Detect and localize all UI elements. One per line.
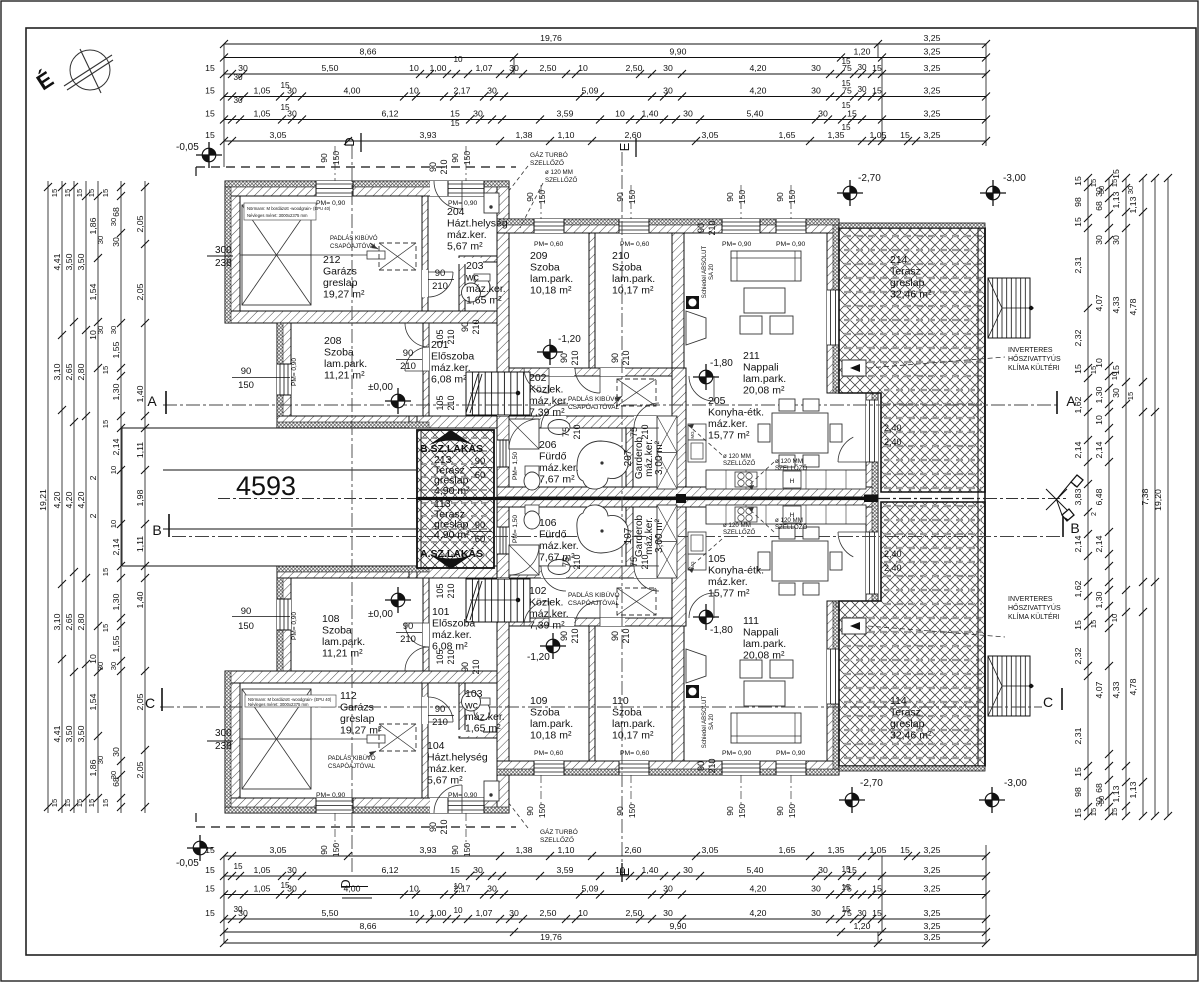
svg-text:Szoba: Szoba: [530, 707, 560, 719]
svg-text:10: 10: [615, 865, 625, 875]
svg-text:GÁZ TURBÓ: GÁZ TURBÓ: [540, 827, 578, 836]
svg-text:wc: wc: [465, 272, 479, 284]
svg-text:150: 150: [787, 190, 797, 204]
svg-text:3,25: 3,25: [924, 33, 941, 43]
svg-text:75: 75: [629, 427, 639, 437]
svg-text:2,31: 2,31: [1073, 727, 1083, 744]
svg-text:-1,20: -1,20: [527, 652, 550, 663]
svg-text:Szoba: Szoba: [612, 707, 642, 719]
svg-text:2: 2: [1091, 512, 1098, 516]
svg-text:15: 15: [900, 130, 910, 140]
wall mirror: left block right wall: [497, 622, 509, 813]
windows: [277, 181, 806, 813]
wall: wall between garage and room 208: [225, 311, 509, 323]
svg-text:3,10: 3,10: [52, 363, 62, 380]
svg-text:210: 210: [640, 554, 650, 569]
attic ladder dashed box garage upper: [379, 243, 416, 270]
svg-text:PM= 1,50: PM= 1,50: [512, 515, 519, 543]
cooktop: [735, 472, 757, 487]
wall: wc 203 left wall: [459, 256, 465, 311]
wall: room 208 / hall bottom wall: [277, 416, 684, 428]
party wall threshold block chimney: [676, 494, 686, 503]
svg-text:210: 210: [400, 361, 416, 372]
wall mirror: wc 203 left wall: [459, 683, 465, 738]
svg-text:ø 120 MM: ø 120 MM: [545, 169, 573, 176]
svg-text:5,40: 5,40: [747, 865, 764, 875]
svg-text:7,67 m²: 7,67 m²: [539, 474, 575, 486]
svg-text:15: 15: [841, 905, 851, 914]
svg-text:210: 210: [707, 758, 717, 773]
svg-text:98: 98: [1073, 197, 1083, 207]
svg-text:202: 202: [529, 372, 547, 384]
svg-text:1,65: 1,65: [779, 130, 796, 140]
svg-text:máz.ker.: máz.ker.: [708, 576, 748, 588]
party wall core line: [416, 497, 866, 500]
svg-text:75: 75: [629, 557, 639, 567]
svg-text:19,76: 19,76: [540, 932, 562, 942]
svg-text:108: 108: [322, 613, 340, 625]
svg-text:210: 210: [446, 395, 456, 410]
svg-text:PM= 1,50: PM= 1,50: [512, 452, 519, 480]
svg-text:3,00 m²: 3,00 m²: [654, 518, 665, 553]
svg-text:6,08 m²: 6,08 m²: [431, 374, 467, 386]
svg-text:208: 208: [324, 335, 342, 347]
wall mirror: party wall: [497, 497, 878, 507]
svg-text:Szoba: Szoba: [612, 262, 642, 274]
svg-text:1,30: 1,30: [1094, 386, 1104, 403]
svg-text:210: 210: [439, 819, 449, 834]
svg-text:150: 150: [537, 804, 547, 818]
svg-text:15: 15: [450, 109, 460, 119]
svg-text:MG: MG: [690, 561, 695, 569]
svg-text:3,10: 3,10: [52, 613, 62, 630]
garage door template upper: [242, 205, 311, 305]
wall mirror: bath 206 left wall: [497, 497, 509, 578]
svg-text:Fürdő: Fürdő: [539, 529, 567, 541]
svg-text:19,27 m²: 19,27 m²: [323, 289, 365, 301]
right dimension columns: [1073, 169, 1172, 820]
svg-text:3,25: 3,25: [924, 845, 941, 855]
wall mirror: wall between 206 and 207: [626, 497, 633, 566]
svg-text:15: 15: [87, 189, 96, 197]
svg-text:4,33: 4,33: [1111, 681, 1121, 698]
marker +0,00 upper: [385, 388, 411, 414]
svg-text:PM= 0,90: PM= 0,90: [448, 792, 478, 799]
svg-text:90: 90: [525, 192, 535, 202]
svg-text:3,50: 3,50: [64, 253, 74, 270]
svg-text:15: 15: [841, 79, 851, 88]
svg-text:4,20: 4,20: [750, 908, 767, 918]
svg-text:5,09: 5,09: [582, 884, 599, 894]
svg-text:PM= 0,90: PM= 0,90: [722, 241, 752, 248]
svg-text:greslap: greslap: [890, 718, 925, 730]
svg-text:Nappali: Nappali: [743, 362, 779, 374]
svg-text:150: 150: [331, 151, 341, 165]
svg-text:lam.park.: lam.park.: [743, 638, 786, 650]
building walls (upper unit + mirrored lower unit): [225, 181, 881, 813]
svg-text:PM= 0,90: PM= 0,90: [291, 612, 298, 640]
svg-text:lam.park.: lam.park.: [322, 636, 365, 648]
svg-text:3,25: 3,25: [924, 130, 941, 140]
svg-text:2,05: 2,05: [135, 215, 145, 232]
wall: room 208 left wall: [277, 323, 291, 416]
svg-text:90: 90: [525, 806, 535, 816]
svg-text:15: 15: [841, 883, 851, 892]
svg-text:1,40: 1,40: [642, 109, 659, 119]
svg-text:30: 30: [1111, 235, 1121, 245]
svg-text:4,90 m²: 4,90 m²: [434, 485, 470, 497]
svg-text:32,46 m²: 32,46 m²: [890, 289, 932, 301]
svg-text:30: 30: [663, 908, 673, 918]
svg-text:1,07: 1,07: [476, 63, 493, 73]
svg-text:INVERTERES: INVERTERES: [1008, 347, 1053, 354]
svg-text:15: 15: [101, 568, 110, 576]
svg-text:±0,00: ±0,00: [368, 609, 393, 620]
svg-text:2,40: 2,40: [884, 423, 902, 433]
wall mirror: kitchen right wall: [866, 497, 878, 601]
svg-text:15: 15: [1110, 808, 1119, 816]
svg-text:9,90: 9,90: [670, 47, 687, 57]
svg-text:2: 2: [88, 475, 98, 480]
indoor stair upper unit: [466, 372, 530, 415]
svg-text:10,17 m²: 10,17 m²: [612, 285, 654, 297]
svg-text:11,21 m²: 11,21 m²: [324, 370, 365, 382]
marker -0,05 bottom: [187, 835, 213, 861]
svg-text:3,05: 3,05: [702, 130, 719, 140]
svg-text:2,80: 2,80: [76, 363, 86, 380]
svg-text:2,40: 2,40: [884, 549, 902, 559]
svg-text:204: 204: [447, 206, 465, 218]
svg-text:SA 20: SA 20: [709, 713, 715, 730]
marker -1,80 upper: [693, 364, 719, 390]
wall: kitchen right wall: [866, 393, 878, 497]
svg-text:1,38: 1,38: [516, 130, 533, 140]
svg-text:4,07: 4,07: [1094, 681, 1104, 698]
section line A: [163, 404, 1060, 406]
svg-text:210: 210: [471, 319, 481, 334]
svg-text:PM= 0,90: PM= 0,90: [316, 792, 346, 799]
svg-text:210: 210: [432, 717, 448, 728]
svg-text:7,39 m²: 7,39 m²: [529, 407, 565, 419]
svg-text:150: 150: [462, 843, 472, 857]
property line top: [196, 166, 516, 168]
svg-text:3,83: 3,83: [1073, 488, 1083, 505]
dining table and chairs: [772, 413, 828, 453]
svg-text:PM= 0,90: PM= 0,90: [776, 241, 806, 248]
attic ladder dashed box garage lower: [379, 724, 416, 751]
svg-text:111: 111: [743, 615, 759, 627]
svg-text:3,59: 3,59: [557, 109, 574, 119]
svg-text:30: 30: [857, 909, 867, 918]
svg-text:30: 30: [96, 326, 105, 334]
wall mirror: kitchen step wall: [836, 601, 881, 612]
section line B: [172, 536, 1060, 538]
svg-text:68: 68: [1094, 783, 1104, 793]
wall mirror: living room right wall: [827, 601, 839, 761]
svg-text:5,67 m²: 5,67 m²: [427, 775, 463, 787]
svg-text:1,65: 1,65: [779, 845, 796, 855]
svg-text:PM= 0,60: PM= 0,60: [534, 241, 564, 248]
dimension row extension lines top: [223, 44, 225, 167]
wall: garage top wall: [225, 181, 509, 196]
svg-text:-0,05: -0,05: [176, 142, 199, 153]
svg-text:3,25: 3,25: [924, 86, 941, 96]
svg-text:Közlek.: Közlek.: [529, 384, 563, 396]
svg-text:1,98: 1,98: [135, 489, 145, 506]
svg-text:150: 150: [238, 621, 254, 632]
svg-text:30: 30: [473, 865, 483, 875]
svg-text:3,05: 3,05: [270, 845, 287, 855]
svg-text:Terasz: Terasz: [890, 707, 921, 719]
marker -2,70 bottom: [839, 787, 865, 813]
svg-text:150: 150: [737, 190, 747, 204]
svg-text:60: 60: [475, 534, 486, 545]
svg-text:3,25: 3,25: [924, 47, 941, 57]
svg-text:300: 300: [215, 728, 232, 739]
svg-text:15: 15: [63, 189, 72, 197]
svg-text:210: 210: [572, 424, 582, 439]
svg-text:15: 15: [1110, 179, 1119, 187]
wall: wall between 206 and 207: [626, 428, 633, 497]
svg-text:105: 105: [435, 649, 445, 664]
svg-text:1,54: 1,54: [88, 283, 98, 300]
svg-text:90: 90: [559, 631, 569, 641]
svg-text:Konyha-étk.: Konyha-étk.: [708, 565, 764, 577]
kitchen H box: [783, 471, 801, 488]
svg-text:15,77 m²: 15,77 m²: [708, 588, 750, 600]
svg-text:Szoba: Szoba: [324, 347, 354, 359]
wall: main top wall: [497, 219, 839, 233]
svg-text:3,05: 3,05: [702, 845, 719, 855]
svg-text:30: 30: [109, 326, 118, 334]
svg-text:101: 101: [432, 606, 450, 618]
svg-text:1,62: 1,62: [1073, 396, 1083, 413]
center terrace left edge: [420, 430, 422, 568]
svg-text:B.SZ.LAKÁS: B.SZ.LAKÁS: [420, 442, 483, 455]
terrace right border: [977, 228, 979, 766]
svg-text:1,13: 1,13: [1111, 785, 1121, 802]
svg-text:15: 15: [450, 865, 460, 875]
svg-text:210: 210: [471, 659, 481, 674]
svg-text:1,30: 1,30: [111, 383, 121, 400]
svg-text:30: 30: [509, 908, 519, 918]
svg-text:2,50: 2,50: [540, 908, 557, 918]
svg-text:ø 120 MM: ø 120 MM: [723, 522, 751, 529]
svg-text:Garázs: Garázs: [323, 266, 357, 278]
svg-text:greslap: greslap: [340, 713, 375, 725]
svg-text:114: 114: [890, 695, 907, 707]
wall mirror: wall between garage and 204: [422, 683, 428, 798]
dimension row extension lines bottom: [223, 856, 225, 943]
svg-text:212: 212: [323, 254, 341, 266]
svg-text:2,14: 2,14: [1073, 441, 1083, 458]
svg-text:20,08 m²: 20,08 m²: [743, 650, 785, 662]
svg-text:150: 150: [238, 380, 254, 391]
svg-text:30: 30: [1126, 186, 1135, 194]
svg-text:15: 15: [205, 86, 215, 96]
garage door template lower: [242, 689, 311, 789]
svg-text:90: 90: [319, 845, 329, 855]
A lakas arrow (down): [429, 554, 473, 569]
window centerlines with 90/150 labels: [334, 146, 336, 181]
svg-text:105: 105: [708, 553, 726, 565]
klima outdoor unit upper: [842, 360, 866, 376]
svg-text:15: 15: [1073, 808, 1083, 818]
marker -3,00 bottom: [979, 787, 1005, 813]
svg-text:30: 30: [287, 865, 297, 875]
svg-text:ø 120 MM: ø 120 MM: [775, 517, 803, 524]
svg-text:109: 109: [530, 695, 548, 707]
svg-text:3,25: 3,25: [924, 908, 941, 918]
indoor stair lower unit: [466, 579, 530, 622]
party wall threshold block kitchen wall: [864, 495, 878, 503]
svg-text:3,25: 3,25: [924, 109, 941, 119]
wall mirror: garage top wall: [225, 798, 509, 813]
svg-text:150: 150: [737, 804, 747, 818]
svg-text:10: 10: [109, 466, 118, 474]
svg-text:PM= 0,60: PM= 0,60: [534, 750, 564, 757]
svg-text:30: 30: [96, 662, 105, 670]
svg-text:30: 30: [233, 905, 243, 914]
svg-text:wc: wc: [464, 700, 478, 712]
wall: living room right wall: [827, 233, 839, 393]
svg-text:-3,00: -3,00: [1003, 173, 1026, 184]
wall: terrace corner pillar: [409, 416, 417, 428]
svg-text:1,20: 1,20: [854, 47, 871, 57]
svg-text:30: 30: [111, 237, 121, 247]
svg-text:10: 10: [578, 908, 588, 918]
svg-text:110: 110: [612, 695, 629, 707]
svg-text:150: 150: [627, 804, 637, 818]
svg-text:30: 30: [811, 63, 821, 73]
svg-text:máz.ker.: máz.ker.: [539, 462, 579, 474]
svg-text:4,20: 4,20: [750, 63, 767, 73]
svg-text:15: 15: [1073, 620, 1083, 630]
svg-text:15: 15: [233, 862, 243, 871]
svg-text:30: 30: [109, 218, 118, 226]
svg-text:máz.ker.: máz.ker.: [431, 362, 471, 374]
svg-text:20,08 m²: 20,08 m²: [743, 385, 785, 397]
svg-text:68: 68: [1094, 201, 1104, 211]
svg-text:SZELLŐZŐ: SZELLŐZŐ: [775, 465, 808, 472]
svg-text:4,20: 4,20: [76, 491, 86, 508]
svg-text:30: 30: [1097, 796, 1106, 804]
svg-text:Előszoba: Előszoba: [431, 351, 474, 363]
svg-text:90: 90: [435, 704, 446, 715]
svg-text:15: 15: [841, 865, 851, 874]
svg-text:90: 90: [460, 662, 470, 672]
wall: wall between 208 and 201: [423, 323, 429, 416]
bath 206 washbasin: [548, 420, 570, 435]
svg-text:3,50: 3,50: [64, 725, 74, 742]
svg-text:90: 90: [725, 192, 735, 202]
marker -0,05 top: [196, 142, 222, 168]
svg-text:9,90: 9,90: [670, 921, 687, 931]
outdoor stair upper: [988, 278, 1030, 338]
svg-text:30: 30: [96, 756, 105, 764]
terrace 214 (upper right, cross-hatched): [839, 228, 985, 492]
svg-text:105: 105: [435, 395, 445, 410]
svg-text:300: 300: [215, 245, 232, 256]
svg-text:15: 15: [50, 799, 59, 807]
svg-text:1,30: 1,30: [1094, 591, 1104, 608]
north symbol: [64, 49, 113, 93]
sofa set living room: [731, 251, 801, 281]
svg-text:1,40: 1,40: [135, 385, 145, 402]
svg-text:4,90 m²: 4,90 m²: [434, 529, 470, 541]
svg-text:105: 105: [435, 583, 445, 598]
svg-text:15: 15: [1073, 767, 1083, 777]
svg-text:máz.ker.: máz.ker.: [447, 229, 487, 241]
bath 206 corner tub: [577, 441, 628, 489]
insulation strips on exterior wall faces: [225, 181, 881, 813]
svg-text:máz.ker.: máz.ker.: [539, 540, 579, 552]
svg-text:68: 68: [111, 207, 121, 217]
svg-text:150: 150: [537, 190, 547, 204]
svg-text:2,17: 2,17: [454, 86, 471, 96]
wall: chimney wall: [672, 368, 686, 497]
svg-text:SZELLŐZŐ: SZELLŐZŐ: [775, 524, 808, 531]
svg-text:15: 15: [87, 799, 96, 807]
svg-text:90: 90: [475, 456, 486, 467]
svg-text:30: 30: [663, 63, 673, 73]
svg-text:1,00: 1,00: [430, 63, 447, 73]
svg-text:SA 20: SA 20: [709, 263, 715, 280]
svg-text:KLÍMA KÜLTÉRI: KLÍMA KÜLTÉRI: [1008, 363, 1060, 372]
svg-text:30: 30: [663, 86, 673, 96]
marker +0,00 lower: [385, 587, 411, 613]
svg-text:15: 15: [101, 624, 110, 632]
svg-text:90: 90: [403, 621, 414, 632]
bath 206 shower: [509, 419, 539, 449]
svg-text:Névleges méret: 3000x2375 mm: Névleges méret: 3000x2375 mm: [247, 213, 308, 218]
svg-text:15: 15: [872, 63, 882, 73]
svg-text:CSAPÓAJTÓVAL: CSAPÓAJTÓVAL: [330, 243, 378, 250]
svg-text:2,14: 2,14: [1094, 535, 1104, 552]
svg-text:MG: MG: [690, 431, 695, 439]
svg-text:1,05: 1,05: [254, 86, 271, 96]
wall mirror: wall between 210 and 211: [672, 626, 684, 761]
svg-text:19,21: 19,21: [38, 489, 48, 511]
svg-text:1,13: 1,13: [1128, 781, 1138, 798]
svg-text:2,40: 2,40: [884, 563, 902, 573]
svg-text:PM= 0,90: PM= 0,90: [722, 750, 752, 757]
svg-text:1,05: 1,05: [870, 845, 887, 855]
svg-text:4,41: 4,41: [52, 725, 62, 742]
terrace 114 (lower right, cross-hatched): [839, 502, 985, 766]
svg-text:210: 210: [707, 220, 717, 235]
svg-text:5,09: 5,09: [582, 86, 599, 96]
svg-text:1,54: 1,54: [88, 693, 98, 710]
wall mirror: wall between 209 and 210: [589, 626, 595, 761]
wall mirror: rooms 209-210 bottom wall: [509, 618, 684, 626]
svg-text:32,46 m²: 32,46 m²: [890, 730, 932, 742]
svg-text:PM= 0,90: PM= 0,90: [316, 200, 346, 207]
svg-text:PADLÁS KIBÚVÓ: PADLÁS KIBÚVÓ: [568, 590, 620, 599]
svg-text:Előszoba: Előszoba: [432, 618, 475, 630]
svg-text:15: 15: [847, 109, 857, 119]
svg-text:2,05: 2,05: [135, 693, 145, 710]
svg-text:90: 90: [319, 153, 329, 163]
svg-text:5,50: 5,50: [322, 908, 339, 918]
svg-text:SZELLŐZŐ: SZELLŐZŐ: [540, 835, 574, 844]
svg-text:D: D: [342, 137, 357, 146]
svg-text:103: 103: [465, 688, 483, 700]
svg-text:30: 30: [663, 884, 673, 894]
svg-text:15: 15: [872, 86, 882, 96]
svg-text:10,18 m²: 10,18 m²: [530, 730, 572, 742]
svg-text:90: 90: [450, 153, 460, 163]
